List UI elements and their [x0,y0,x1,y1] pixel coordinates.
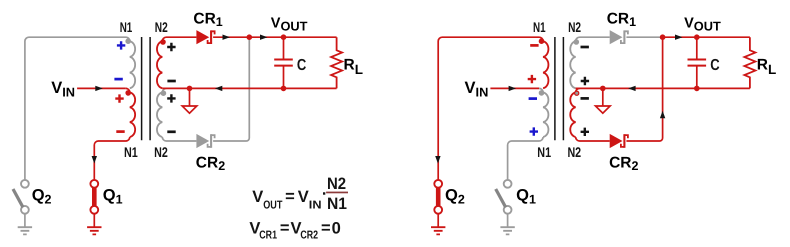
node VOUT (b) [694,34,700,40]
wire: secondary N2 top to CR1 anode (a) [162,37,196,41]
svg-text:N2: N2 [154,144,168,160]
label: primary bottom polarity - upper (b) [529,97,537,100]
svg-text:OUT: OUT [263,199,282,211]
phasing dot: secondary bottom (a) [161,90,167,96]
svg-text:CR1: CR1 [259,230,277,242]
transformer core (b) [555,37,564,140]
wire: N1 bottom to Q1 (b) [508,137,543,180]
label: secondary top polarity + upper (a) [167,43,175,51]
arrowhead: VIN current into center tap (a) [95,86,103,91]
wire: CR1 cathode to output junction (a) [213,36,249,38]
capacitor C (a) [283,37,285,88]
arrowhead: CR2 current up riser (b) [660,111,665,119]
node: capacitor bottom (a) [281,86,287,92]
resistor RL (b) [744,37,755,88]
wire: CR2 cathode to riser and up to output junction (a) [213,37,249,141]
label: primary top polarity + upper (a) [117,41,125,49]
transformer primary winding N1 top (a) [130,41,135,88]
label: primary bottom polarity + upper (a) [115,94,123,102]
wire: secondary N2 top to CR1 anode (b) [576,37,610,41]
wire: N1 bottom to Q1 (a) [94,137,130,180]
svg-text:N1: N1 [124,144,138,160]
transistor switch Q1 (closed switch) [92,186,97,207]
arrowhead: VIN current into center tap (b) [509,86,516,91]
diode CR2 (b) [610,134,623,148]
resistor RL (a) [331,37,342,88]
wire: output junction to VOUT node and load top (b) [663,36,750,38]
ground at secondary center tap (b) [602,88,604,106]
transformer primary winding N1 top (b) [543,41,548,88]
node VOUT (a) [281,34,287,40]
node: capacitor bottom (b) [694,86,700,92]
label: secondary bottom polarity + upper (a) [167,94,175,102]
node: secondary center tap (a) [187,86,193,92]
transistor switch Q1 (open switch) [504,180,512,188]
label: secondary bottom polarity - upper (b) [581,97,589,100]
phasing dot: secondary top (b) [574,39,580,45]
svg-text:N2: N2 [327,175,346,193]
arrowhead: CR1 output current (a) [223,35,231,40]
wire: secondary center tap stub (b) [576,88,610,141]
wire: primary center tap stub into N1 bottom (b) [539,88,543,92]
node: riser/output junction (a) [247,34,253,40]
arrowhead: primary current into Q2 (b) [435,156,440,164]
svg-text:C: C [710,57,720,74]
transformer secondary winding N2 bottom (a) [157,92,162,137]
svg-text:VOUT: VOUT [271,16,308,34]
capacitor C (b) [696,37,698,88]
transistor switch Q2 (closed switch) [436,186,441,207]
wire: CR2 cathode to riser and up to output junction (b) [626,37,662,141]
svg-text:N2: N2 [155,19,168,35]
phasing dot: secondary top (a) [160,39,166,45]
svg-text:CR2: CR2 [300,230,318,242]
diode CR2 (a) [196,134,209,148]
phasing dot: primary top (b) [539,38,545,44]
node: riser/output junction (b) [660,34,666,40]
ground under Q1 (b) [500,227,514,234]
svg-text:IN: IN [309,199,322,211]
ground under Q2 (b) [431,227,445,234]
ground under Q2 (a) [18,227,32,234]
phasing dot: primary bottom (b) [539,90,545,96]
transformer secondary winding N2 bottom (b) [570,92,575,137]
diode CR1 (a) [196,30,209,44]
svg-text:=: = [285,187,295,205]
transformer core (a) [142,37,151,140]
wire: top rail from primary N1 top to Q2 (b) [438,37,543,180]
diode CR1 (b) [610,30,623,44]
svg-text:N2: N2 [567,144,581,160]
svg-text:N2: N2 [568,19,581,35]
wire: VIN feed to primary center tap (b) [490,87,539,89]
equation fraction bar [326,192,348,194]
svg-text:V: V [298,188,309,206]
label: primary bottom polarity + lower (b) [530,127,538,135]
svg-text:V: V [252,188,263,206]
wire: CR1 cathode to output junction (b) [626,36,662,38]
svg-text:N1: N1 [533,19,546,35]
transformer primary winding N1 bottom (a) [130,92,135,137]
label: secondary top polarity - upper (b) [581,46,589,49]
label: primary top polarity - lower (a) [114,78,122,81]
transformer secondary winding N2 top (b) [570,41,575,88]
transistor switch Q2 (open switch) [21,180,29,188]
node: secondary center tap (b) [600,86,606,92]
wire: VIN feed to primary center tap (a) [77,87,126,89]
label: secondary bottom polarity + lower (b) [581,128,589,136]
wire: output junction to VOUT node and load top (a) [249,36,336,38]
svg-text:N1: N1 [537,144,551,160]
arrowhead: primary current into Q1 (a) [92,156,97,164]
svg-text:VOUT: VOUT [684,16,721,34]
phasing dot: primary bottom (a) [125,90,131,96]
phasing dot: secondary bottom (b) [575,91,579,95]
wire: secondary center tap stub (a) [162,88,196,141]
wire: primary center tap stub into N1 bottom (a) [126,88,130,92]
wire: top rail from primary N1 top to Q2 (a) [25,37,130,180]
svg-text:=: = [321,219,331,237]
label: primary top polarity - upper (b) [530,44,538,47]
label: primary bottom polarity - lower (a) [116,130,124,133]
svg-text:C: C [297,57,307,74]
label: primary top polarity + lower (b) [528,75,536,83]
ground under Q1 (a) [87,227,101,234]
transformer primary winding N1 bottom (b) [543,92,548,137]
arrowhead: return current to center tap (b) [628,86,636,91]
phasing dot: primary top (a) [125,38,131,44]
svg-text:N1: N1 [327,195,347,213]
ground at secondary center tap (a) [189,88,191,106]
arrowhead: current into VOUT node (b) [675,35,683,40]
label: secondary top polarity - lower (a) [167,80,175,83]
svg-text:N1: N1 [120,19,133,35]
wire: return line from secondary center tap to load bottom (a) [162,87,336,89]
transformer secondary winding N2 top (a) [157,41,162,88]
arrowhead: current into VOUT node (a) [260,35,268,40]
wire: return line from secondary center tap to load bottom (b) [576,87,750,89]
svg-text:0: 0 [332,220,341,238]
label: secondary top polarity + lower (b) [581,77,589,85]
svg-text:=: = [280,219,290,237]
arrowhead: return current to center tap (a) [215,86,223,91]
label: secondary bottom polarity - lower (a) [167,130,175,133]
